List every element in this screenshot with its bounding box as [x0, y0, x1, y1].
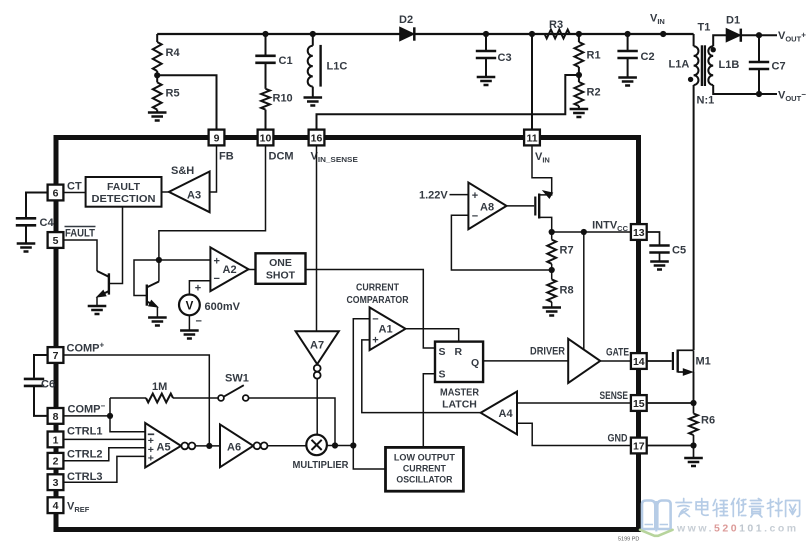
- ground below L1C: [304, 96, 323, 99]
- svg-text:MULTIPLIER: MULTIPLIER: [293, 459, 349, 471]
- transformer T1 secondary L1B: [697, 35, 778, 106]
- diode D1: [726, 15, 741, 42]
- capacitor C3: [476, 34, 512, 77]
- wire 1.22V to A8 +: [450, 194, 469, 196]
- wire INTVCC to driver top: [583, 232, 585, 350]
- resistor R3: [545, 19, 570, 38]
- svg-text:CTRL1: CTRL1: [67, 426, 102, 438]
- wire node A to A2 + input: [159, 259, 211, 261]
- wire multiplier node to A1- and oscillator: [353, 319, 385, 469]
- svg-text:−: −: [214, 273, 220, 285]
- svg-text:A1: A1: [379, 324, 393, 336]
- svg-text:CURRENT: CURRENT: [403, 464, 446, 475]
- phase dot L1A: [688, 77, 693, 82]
- svg-text:N:1: N:1: [697, 95, 715, 107]
- svg-text:CURRENT: CURRENT: [356, 282, 399, 294]
- svg-text:R2: R2: [587, 87, 601, 99]
- block LOW OUTPUT CURRENT OSCILLATOR: [386, 447, 464, 491]
- svg-text:L1C: L1C: [327, 61, 348, 73]
- svg-text:COMP−: COMP−: [68, 402, 106, 416]
- resistor 1M: [110, 381, 218, 416]
- op-amp A8: [468, 183, 506, 230]
- block FAULT DETECTION: [86, 177, 162, 207]
- svg-text:A3: A3: [187, 190, 201, 202]
- transformer core: [702, 45, 705, 86]
- resistor R6: [689, 403, 715, 446]
- svg-text:COMPARATOR: COMPARATOR: [347, 294, 409, 306]
- wire SW1 to multiplier node: [249, 398, 335, 446]
- pin 10 DCM: [258, 130, 294, 163]
- A6 output bubbles: [254, 442, 261, 449]
- wire CTRL3 to A5: [63, 456, 145, 482]
- svg-text:A6: A6: [227, 442, 241, 454]
- switch SW1: [218, 373, 249, 401]
- svg-text:CTRL2: CTRL2: [67, 449, 102, 461]
- wire A5 to A6: [195, 445, 220, 447]
- transistor Q3 pass device: [532, 145, 552, 232]
- wire T1 primary to M1 drain: [693, 85, 695, 350]
- pin 13 INTVCC: [631, 224, 647, 240]
- wire pin 6 to fault detection: [63, 192, 85, 194]
- svg-text:DCM: DCM: [269, 151, 294, 163]
- resistor R8: [547, 270, 573, 308]
- svg-text:+: +: [372, 335, 378, 347]
- svg-text:600mV: 600mV: [205, 301, 241, 313]
- node COMP-: [107, 413, 113, 419]
- svg-text:DETECTION: DETECTION: [92, 193, 156, 205]
- svg-text:GND: GND: [608, 433, 628, 445]
- svg-text:M1: M1: [696, 356, 711, 368]
- wire CTRL1 to A5: [63, 438, 145, 440]
- pin 16 VIN_SENSE: [309, 130, 359, 164]
- resistor R1: [575, 34, 601, 75]
- svg-text:L1A: L1A: [669, 59, 690, 71]
- transistor Q2 (diode connected): [134, 260, 159, 318]
- svg-text:A7: A7: [310, 340, 324, 352]
- node VIN: [660, 31, 666, 37]
- node R1/R2 junction: [576, 72, 582, 78]
- wire DCM pin 10 to node A: [159, 145, 266, 260]
- capacitor C7: [749, 35, 786, 94]
- svg-text:T1: T1: [698, 22, 711, 34]
- ground below C2: [618, 76, 637, 79]
- A7 output bubbles: [314, 365, 321, 372]
- A5 output bubbles: [181, 443, 188, 450]
- ground below R8: [542, 306, 561, 309]
- wire pin 15 SENSE to M1 source: [647, 402, 694, 404]
- svg-text:D1: D1: [726, 15, 740, 27]
- wire A4 output to A1 +: [362, 340, 481, 413]
- svg-text:−: −: [196, 316, 202, 328]
- phase dot L1B: [711, 47, 716, 52]
- svg-text:11: 11: [526, 132, 537, 144]
- capacitor C5: [647, 232, 686, 262]
- block ONE SHOT: [256, 253, 306, 283]
- svg-text:R1: R1: [587, 50, 601, 62]
- pin 6 CT: [48, 181, 82, 201]
- node C1 top junction: [262, 31, 268, 37]
- wire pin 14 to M1 gate: [647, 360, 672, 362]
- watermark chinese characters: [676, 499, 800, 518]
- ground below C3: [477, 76, 496, 79]
- svg-text:−: −: [472, 211, 478, 223]
- transistor Q1: [63, 207, 122, 306]
- svg-text:CTRL3: CTRL3: [67, 471, 102, 483]
- IC block outline: [56, 138, 639, 530]
- capacitor C6: [24, 355, 55, 416]
- resistor R10: [261, 63, 293, 130]
- pin 1 CTRL1: [48, 426, 103, 448]
- inductor L1C: [308, 34, 348, 98]
- svg-text:C5: C5: [672, 245, 686, 257]
- wire A8 output to Q3 gate: [507, 205, 535, 207]
- capacitor C2: [617, 34, 654, 78]
- node R3 left junction (pin 11 tap): [529, 31, 535, 37]
- svg-text:A8: A8: [480, 202, 494, 214]
- master latch: [435, 342, 483, 411]
- buffer A6: [220, 424, 253, 467]
- svg-text:15: 15: [633, 398, 645, 410]
- resistor R5: [153, 75, 180, 112]
- svg-text:FB: FB: [219, 151, 234, 163]
- wire multiplier output: [327, 445, 353, 447]
- wire A1 output to latch R: [406, 329, 459, 342]
- wire COMP+ pin 7 to A5 output node: [63, 355, 209, 446]
- svg-text:R: R: [455, 346, 463, 358]
- svg-text:7: 7: [53, 350, 59, 362]
- svg-text:R7: R7: [560, 245, 574, 257]
- svg-text:SENSE: SENSE: [600, 390, 629, 402]
- node R1 top junction: [576, 31, 582, 37]
- wire R6 to ground: [693, 446, 695, 459]
- ground below C4: [17, 242, 36, 245]
- pin 5 FAULT: [48, 227, 96, 248]
- svg-text:DRIVER: DRIVER: [530, 346, 565, 358]
- node VOUT+ / C7 top: [756, 32, 762, 38]
- svg-text:9: 9: [214, 132, 220, 144]
- diode D2: [399, 14, 414, 41]
- ground below R2: [570, 108, 589, 111]
- svg-text:R8: R8: [560, 285, 574, 297]
- svg-text:SHOT: SHOT: [266, 270, 296, 282]
- svg-text:C6: C6: [41, 379, 55, 391]
- pin 3 CTRL3: [48, 471, 103, 490]
- wire A3 output to fault detection: [162, 191, 169, 193]
- svg-text:17: 17: [633, 440, 645, 452]
- svg-text:6: 6: [53, 187, 59, 199]
- svg-text:13: 13: [633, 227, 645, 239]
- svg-text:CT: CT: [67, 181, 82, 193]
- node VOUT- / C7 bottom: [756, 91, 762, 97]
- wire top rail left (R4 to D2 anode): [157, 33, 400, 35]
- svg-text:S&H: S&H: [171, 165, 194, 177]
- amplifier A4: [481, 392, 517, 435]
- wire A8 feedback to R7/R8 node: [451, 215, 551, 270]
- svg-text:LATCH: LATCH: [442, 399, 477, 411]
- voltage source 600mV: [179, 281, 241, 331]
- svg-text:R10: R10: [273, 93, 293, 105]
- node R7/R8: [549, 267, 555, 273]
- ground below R5: [148, 111, 167, 114]
- node multiplier/A1-: [350, 442, 356, 448]
- node INTVCC/R7: [549, 229, 555, 235]
- svg-text:D2: D2: [399, 14, 413, 26]
- node A (DCM / Q2 / A2+): [156, 257, 162, 263]
- transformer T1 primary L1A: [669, 22, 711, 86]
- resistor R2: [575, 75, 601, 109]
- pin 4 VREF: [48, 497, 90, 514]
- watermark book page lines: [645, 524, 669, 526]
- comparator A1: [347, 282, 409, 351]
- wire driver to GATE pin 14: [600, 360, 631, 362]
- wire R4/R5 tap to pin 9: [157, 75, 216, 130]
- svg-text:www.520101.com: www.520101.com: [676, 523, 799, 535]
- svg-text:A2: A2: [223, 264, 237, 276]
- svg-text:C7: C7: [772, 61, 786, 73]
- capacitor C1: [255, 34, 292, 67]
- svg-text:SW1: SW1: [225, 373, 249, 385]
- error amp A5: [145, 423, 181, 468]
- ground below 600mV: [180, 329, 199, 332]
- svg-text:R6: R6: [701, 415, 715, 427]
- resistor R4: [153, 34, 181, 75]
- op-amp A2: [210, 247, 248, 291]
- ground below C5: [650, 260, 669, 263]
- svg-text:GATE: GATE: [606, 347, 629, 359]
- svg-text:+: +: [472, 190, 478, 202]
- svg-text:MASTER: MASTER: [440, 387, 479, 399]
- svg-text:R4: R4: [166, 47, 181, 59]
- wire one shot to latch S1: [306, 270, 436, 349]
- node GND/R6: [690, 442, 696, 448]
- svg-text:A4: A4: [499, 408, 514, 420]
- svg-text:2: 2: [53, 456, 59, 468]
- svg-text:FAULT: FAULT: [65, 228, 95, 240]
- node C2 junction: [625, 31, 631, 37]
- MOSFET M1: [673, 350, 711, 404]
- svg-text:5: 5: [53, 235, 59, 247]
- wire CTRL2 to A5: [63, 448, 145, 461]
- svg-text:14: 14: [633, 356, 645, 368]
- svg-text:10: 10: [260, 132, 272, 144]
- svg-text:COMP+: COMP+: [67, 341, 105, 355]
- svg-text:1M: 1M: [152, 381, 167, 393]
- svg-text:+: +: [214, 256, 220, 268]
- wire top rail right (D2 cathode to T1): [414, 33, 693, 35]
- node R4/R5 junction: [154, 72, 160, 78]
- pin 17 GND: [608, 433, 647, 454]
- svg-text:C1: C1: [279, 55, 293, 67]
- svg-text:C3: C3: [498, 52, 512, 64]
- wire FB pin 9 to A3 input: [210, 145, 217, 192]
- svg-text:4: 4: [53, 500, 59, 512]
- svg-text:R5: R5: [166, 88, 180, 100]
- svg-text:V: V: [186, 301, 194, 313]
- watermark book icon: [642, 501, 671, 532]
- svg-text:3: 3: [53, 477, 59, 489]
- op-amp A3 sample-hold: [169, 165, 210, 212]
- pin 7 COMP+: [48, 341, 105, 363]
- svg-text:ONE: ONE: [269, 257, 292, 269]
- wire pin 17 GND to R6: [647, 445, 694, 447]
- wire COMP- pin 8: [63, 415, 110, 417]
- multiplier: [293, 435, 349, 471]
- wire INTVCC rail to pin 13: [552, 231, 631, 233]
- wire A6 to multiplier: [268, 445, 307, 447]
- wire A2 to one shot: [249, 269, 256, 271]
- wire GND to A4 input: [517, 423, 631, 445]
- svg-text:LOW OUTPUT: LOW OUTPUT: [394, 453, 455, 464]
- svg-text:S: S: [439, 346, 446, 358]
- pin 9 FB: [209, 130, 234, 163]
- wire oscillator to latch S2: [423, 374, 435, 448]
- svg-text:+: +: [148, 453, 154, 465]
- svg-text:+: +: [195, 283, 201, 295]
- buffer A7: [296, 331, 339, 364]
- svg-text:C2: C2: [641, 51, 655, 63]
- svg-text:OSCILLATOR: OSCILLATOR: [396, 475, 452, 486]
- node C3 junction: [483, 31, 489, 37]
- wire SENSE to A4 input: [517, 402, 631, 404]
- pin 8 COMP-: [48, 402, 106, 424]
- svg-text:S: S: [439, 369, 446, 381]
- pin 14 GATE: [606, 347, 647, 369]
- svg-text:1: 1: [53, 434, 59, 446]
- pin 15 SENSE: [600, 390, 647, 411]
- wire latch Q to driver: [483, 360, 568, 362]
- wire COMP- to A5 - input: [110, 416, 145, 432]
- wire VIN_SENSE tap to pin 16: [317, 75, 579, 130]
- svg-text:L1B: L1B: [719, 59, 740, 71]
- node A5 output / COMP+: [206, 443, 212, 449]
- capacitor C4: [16, 193, 55, 244]
- svg-text:1.22V: 1.22V: [419, 190, 448, 202]
- wire pin 16 to A7 input: [316, 145, 318, 331]
- svg-text:8: 8: [53, 411, 59, 423]
- svg-text:R3: R3: [549, 19, 563, 31]
- ground below R6: [684, 457, 703, 460]
- ground below Q2: [148, 316, 167, 319]
- ground below Q1: [88, 305, 107, 308]
- amplifier DRIVER: [530, 339, 600, 383]
- wire A7 to multiplier: [316, 379, 318, 435]
- node INTVCC/driver: [581, 229, 587, 235]
- svg-text:5199 PD: 5199 PD: [618, 537, 639, 541]
- watermark book base swoosh: [640, 530, 673, 536]
- node L1C top junction: [310, 31, 316, 37]
- pin 2 CTRL2: [48, 449, 103, 469]
- pin 11 VIN: [524, 130, 550, 165]
- svg-text:Q: Q: [471, 357, 479, 369]
- wire pin 11 riser: [531, 34, 533, 130]
- svg-text:FAULT: FAULT: [107, 181, 141, 193]
- resistor R7: [547, 232, 573, 270]
- node SENSE/R6: [690, 400, 696, 406]
- svg-text:A5: A5: [157, 442, 171, 454]
- wire D1 cathode to VOUT+: [741, 34, 777, 36]
- node multiplier/SW1: [332, 442, 338, 448]
- svg-text:16: 16: [311, 132, 323, 144]
- svg-text:C4: C4: [40, 217, 55, 229]
